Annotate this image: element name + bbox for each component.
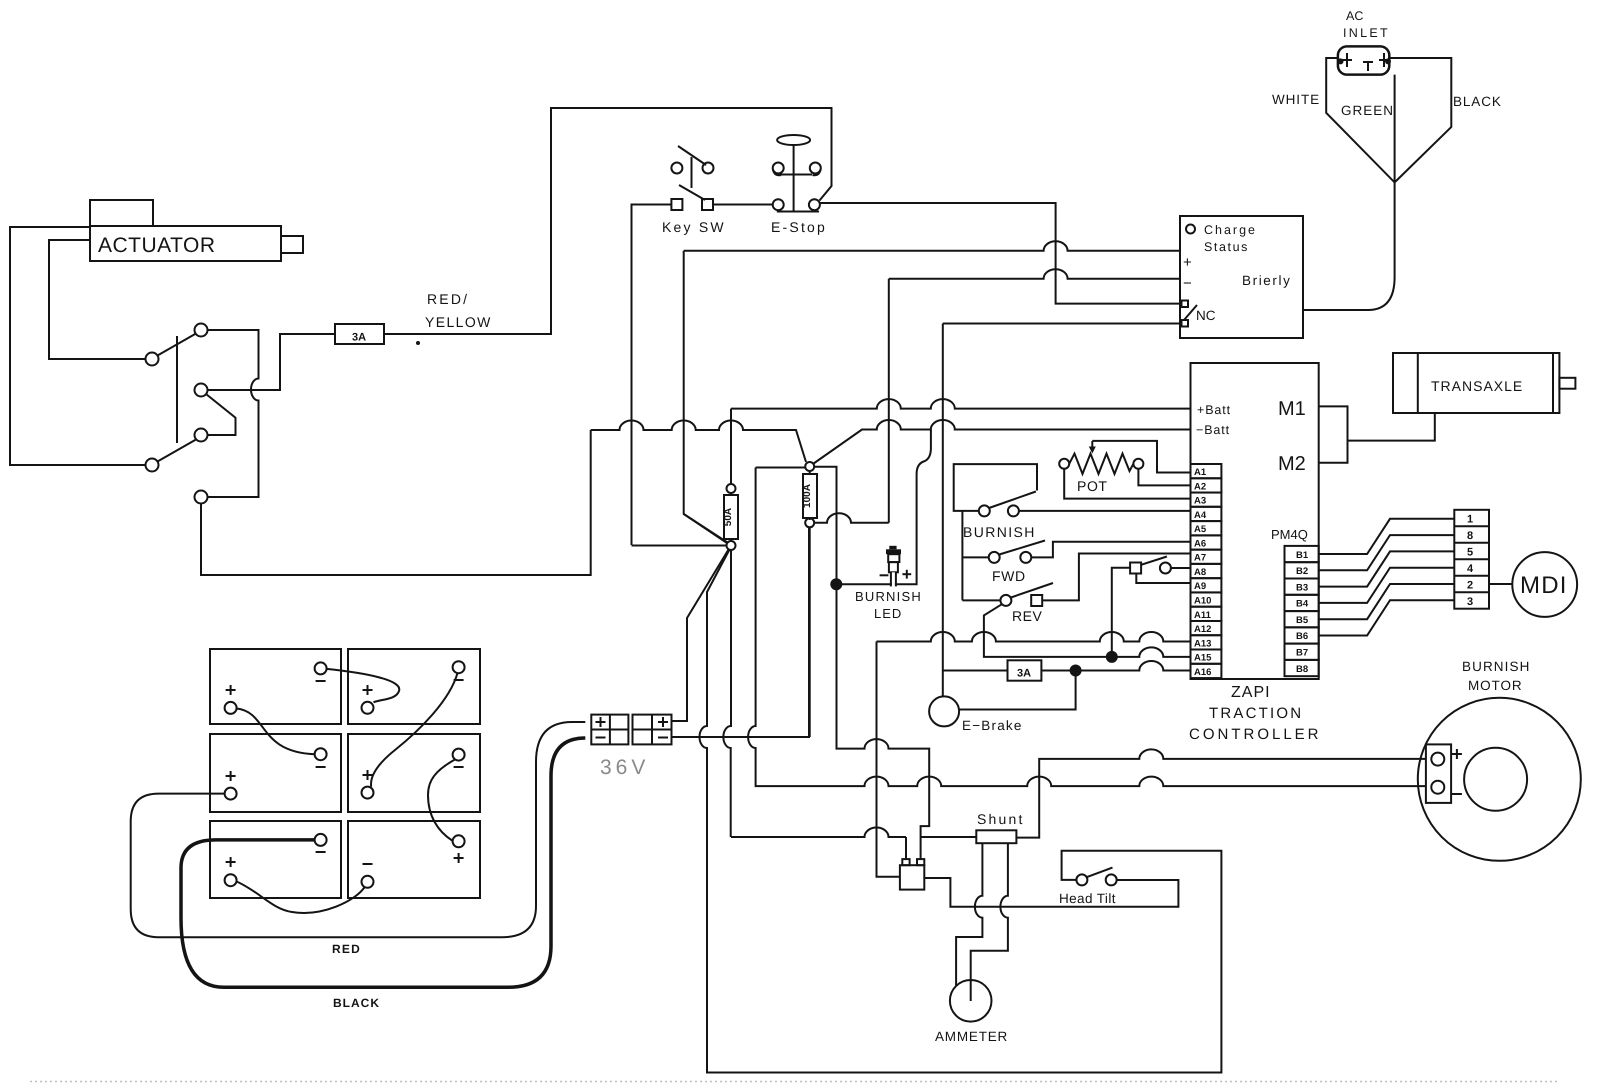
wire +Batt riser xyxy=(730,409,732,484)
wire charger nc-lower xyxy=(943,323,1181,325)
wire rev right to A7 xyxy=(1042,554,1190,601)
svg-text:B5: B5 xyxy=(1296,615,1309,626)
svg-text:B4: B4 xyxy=(1296,599,1309,610)
wire 50A upleft diag xyxy=(684,514,728,543)
label Charge Status xyxy=(1204,223,1257,254)
wire pot left to A3 xyxy=(1064,469,1190,499)
wire red/yellow xyxy=(384,108,832,334)
svg-text:B8: B8 xyxy=(1296,664,1308,675)
label PM4Q xyxy=(1271,527,1308,542)
label +Batt xyxy=(1197,403,1231,417)
wire corner to 100A top xyxy=(756,467,806,469)
wire 100A bottom right xyxy=(814,513,889,523)
controller A-pin column A1-A16 xyxy=(1191,464,1222,678)
wire coil right to head tilt xyxy=(924,878,1178,907)
wire 50A to 36V plus xyxy=(672,550,729,722)
wire rev to A15 xyxy=(984,604,1191,657)
label FWD xyxy=(992,568,1026,584)
svg-text:GREEN: GREEN xyxy=(1341,103,1394,118)
battery terminals xyxy=(225,661,465,888)
wire 50A straight down xyxy=(723,550,731,837)
svg-text:BLACK: BLACK xyxy=(333,996,380,1010)
svg-text:INLET: INLET xyxy=(1343,26,1390,40)
burnish switch xyxy=(979,492,1036,517)
junction led-dot xyxy=(830,578,842,590)
ammeter M3 xyxy=(950,980,992,1022)
cable BLACK xyxy=(181,738,585,987)
wire pot wiper to A1 xyxy=(1092,441,1190,473)
svg-text:−Batt: −Batt xyxy=(1196,423,1230,437)
svg-text:E-Stop: E-Stop xyxy=(771,219,827,235)
wire -Batt feed xyxy=(814,420,1191,464)
wire charger minus riser xyxy=(888,279,890,523)
wire charger plus riser xyxy=(684,251,727,543)
svg-text:BURNISH: BURNISH xyxy=(1462,659,1530,674)
svg-text:Charge: Charge xyxy=(1204,223,1257,237)
svg-text:Key SW: Key SW xyxy=(662,219,726,235)
label Key SW xyxy=(662,219,726,235)
controller B-pin column B1-B8 xyxy=(1285,546,1319,676)
svg-text:3A: 3A xyxy=(352,332,366,344)
label 36V xyxy=(600,756,649,779)
svg-text:A9: A9 xyxy=(1194,581,1206,592)
label TRACTION xyxy=(1209,705,1303,722)
svg-text:AC: AC xyxy=(1346,9,1363,23)
jumper bat5-bat6 xyxy=(237,882,365,913)
svg-text:CONTROLLER: CONTROLLER xyxy=(1189,726,1322,743)
e-brake solenoid xyxy=(929,696,959,726)
potentiometer POT xyxy=(1059,441,1143,494)
e-stop contacts top xyxy=(773,163,821,174)
svg-text:+Batt: +Batt xyxy=(1197,403,1231,417)
wire 36V minus to 100A xyxy=(672,527,810,737)
junction A15-dot xyxy=(1106,651,1118,663)
label CONTROLLER xyxy=(1189,726,1322,743)
wire nc riser to e-brake xyxy=(942,324,944,697)
svg-text:100A: 100A xyxy=(802,484,813,508)
label Shunt xyxy=(977,811,1025,827)
switch S1 contact C5 xyxy=(146,459,159,472)
svg-text:M1: M1 xyxy=(1278,398,1306,420)
svg-text:Brierly: Brierly xyxy=(1242,273,1291,288)
svg-text:TRANSAXLE: TRANSAXLE xyxy=(1431,378,1523,394)
svg-text:Shunt: Shunt xyxy=(977,811,1025,827)
svg-text:Status: Status xyxy=(1204,240,1249,254)
label AC INLET xyxy=(1343,9,1390,40)
switch S1 contact C6 xyxy=(195,491,208,504)
head tilt switch xyxy=(1076,868,1116,886)
svg-text:RED: RED xyxy=(332,942,361,956)
svg-text:A5: A5 xyxy=(1194,524,1207,535)
svg-text:A10: A10 xyxy=(1194,596,1211,607)
svg-text:36V: 36V xyxy=(600,756,649,779)
wire C6 down xyxy=(201,430,591,575)
label charger plus xyxy=(1183,254,1192,271)
svg-text:B6: B6 xyxy=(1296,631,1308,642)
wire burnish led xyxy=(838,430,931,585)
label -Batt xyxy=(1196,423,1230,437)
cable RED xyxy=(131,722,586,937)
charger NC contact xyxy=(1182,301,1216,327)
wire motor to transaxle xyxy=(1348,413,1435,441)
wire aux square to A9 xyxy=(1136,574,1190,584)
svg-text:−: − xyxy=(1183,275,1192,292)
e-stop nc bar xyxy=(773,170,821,176)
switch S1 blade upper xyxy=(158,334,197,356)
wire shunt bottom right xyxy=(971,843,1008,1001)
jumper bat1-bat2 xyxy=(327,669,400,702)
svg-text:NC: NC xyxy=(1196,308,1216,323)
svg-text:MDI: MDI xyxy=(1520,572,1568,599)
svg-text:AMMETER: AMMETER xyxy=(935,1029,1008,1044)
wire key-left xyxy=(632,205,672,546)
label BLACK xyxy=(333,996,380,1010)
e-stop stem xyxy=(793,145,795,212)
switch S1 blade lower xyxy=(158,440,197,462)
actuator ACT1 xyxy=(90,200,303,261)
aux switch A8 xyxy=(1130,557,1171,574)
svg-text:B3: B3 xyxy=(1296,582,1308,593)
svg-text:A6: A6 xyxy=(1194,538,1206,549)
wire aux left riser xyxy=(1112,568,1130,657)
connector 36V xyxy=(591,715,671,745)
wire actuator-left xyxy=(10,227,146,465)
charger status lamp xyxy=(1186,225,1195,234)
label BURNISH LED xyxy=(855,589,922,621)
svg-text:BURNISH: BURNISH xyxy=(855,589,922,604)
svg-text:50A: 50A xyxy=(723,508,734,526)
jumper bat1-bat3 xyxy=(237,709,315,755)
wire C3 to fuse xyxy=(208,334,335,390)
svg-text:REV: REV xyxy=(1012,608,1042,624)
wire main bus xyxy=(591,421,806,463)
svg-text:B2: B2 xyxy=(1296,566,1308,577)
e-stop contacts bottom xyxy=(773,199,820,210)
wire e-brake right xyxy=(959,671,1076,710)
svg-text:A2: A2 xyxy=(1194,481,1206,492)
svg-text:RED/: RED/ xyxy=(427,291,469,307)
switch S1 contact C1 xyxy=(195,324,208,337)
switch S1 contact C4 xyxy=(195,429,208,442)
svg-text:TRACTION: TRACTION xyxy=(1209,705,1303,722)
controller ZAPI box xyxy=(1191,363,1319,679)
label RED xyxy=(332,942,361,956)
fuse F1 3A xyxy=(335,324,384,344)
switch S1 link xyxy=(176,336,178,443)
svg-text:A16: A16 xyxy=(1194,667,1211,678)
wire 100A top right xyxy=(814,467,929,837)
svg-text:Head Tilt: Head Tilt xyxy=(1059,891,1116,906)
wire shunt bottom left xyxy=(956,843,982,986)
svg-text:BLACK: BLACK xyxy=(1453,94,1502,109)
shunt R1 xyxy=(976,830,1016,843)
switch S1 contact C2 xyxy=(146,353,159,366)
svg-text:3: 3 xyxy=(1467,596,1473,608)
svg-text:A4: A4 xyxy=(1194,510,1207,521)
svg-text:A3: A3 xyxy=(1194,496,1206,507)
svg-text:A13: A13 xyxy=(1194,638,1211,649)
wire charger minus xyxy=(889,269,1181,279)
fuse F2 50A xyxy=(723,484,738,550)
rev switch xyxy=(1000,583,1053,606)
label BURNISH xyxy=(963,524,1036,540)
wire estop-nc out xyxy=(820,203,1181,304)
label RED/YELLOW xyxy=(416,291,492,345)
fwd switch xyxy=(989,541,1045,563)
wire shunt left feed xyxy=(731,828,906,838)
svg-text:2: 2 xyxy=(1467,579,1473,591)
svg-text:+: + xyxy=(1183,254,1192,271)
wires B1-B6 staircase xyxy=(1319,519,1455,636)
wire +Batt feed xyxy=(731,399,1191,408)
wire shunt right riser xyxy=(1016,749,1426,837)
svg-text:YELLOW: YELLOW xyxy=(425,314,492,330)
svg-text:BURNISH: BURNISH xyxy=(963,524,1036,540)
charger U1 Brierly box xyxy=(1180,216,1303,338)
svg-text:A11: A11 xyxy=(1194,610,1212,621)
wire burnish right to A4 xyxy=(1019,510,1191,512)
junction A16-dot xyxy=(1070,665,1082,677)
loop 50A to big bottom box xyxy=(700,550,1222,1073)
led D1 xyxy=(880,546,912,587)
key switch blade xyxy=(678,146,706,200)
burnish motor M2 xyxy=(1418,698,1581,861)
battery bank boxes xyxy=(210,649,480,898)
wire 100A straight down xyxy=(809,527,811,737)
svg-text:A7: A7 xyxy=(1194,553,1206,564)
connector J1 cells xyxy=(1454,510,1489,609)
wire 50A left xyxy=(632,545,727,547)
wire nc to 3A xyxy=(943,670,1008,672)
wire fwd right to A6 xyxy=(1031,542,1190,558)
wire charger plus xyxy=(684,241,1181,251)
wire pot right to A2 xyxy=(1138,469,1190,486)
page dotted border xyxy=(30,1081,1560,1083)
wire aux to A8 xyxy=(1171,567,1191,569)
svg-text:LED: LED xyxy=(874,606,902,621)
switch S1 jog C3-C4 xyxy=(206,394,236,435)
coil K1 xyxy=(900,837,924,890)
svg-text:MOTOR: MOTOR xyxy=(1468,678,1523,693)
svg-text:A12: A12 xyxy=(1194,624,1211,635)
svg-text:3A: 3A xyxy=(1017,668,1031,680)
wire coil to shunt xyxy=(921,836,977,838)
wire green charger xyxy=(1303,75,1395,310)
svg-text:PM4Q: PM4Q xyxy=(1271,527,1308,542)
label M1 xyxy=(1278,398,1306,420)
jumper bat2-bat4 xyxy=(371,673,457,787)
wire C1-C6 right xyxy=(208,330,259,497)
label M2 xyxy=(1278,453,1306,475)
svg-text:WHITE: WHITE xyxy=(1272,92,1320,107)
svg-text:8: 8 xyxy=(1467,530,1473,542)
wire to MDI xyxy=(1489,583,1512,585)
label E-Brake xyxy=(962,718,1023,733)
wire corner down to motor line xyxy=(748,468,1426,787)
ac inlet receptacle xyxy=(1338,46,1392,74)
svg-text:5: 5 xyxy=(1467,546,1473,558)
svg-text:POT: POT xyxy=(1077,478,1108,494)
wire rev left xyxy=(962,599,1000,601)
label AMMETER xyxy=(935,1029,1008,1044)
svg-text:1: 1 xyxy=(1467,513,1473,525)
svg-text:4: 4 xyxy=(1467,563,1474,575)
wire switch common riser xyxy=(961,511,963,601)
svg-text:B1: B1 xyxy=(1296,550,1309,561)
wire key-to-estop xyxy=(713,204,773,206)
label GREEN xyxy=(1341,103,1394,118)
svg-text:A15: A15 xyxy=(1194,653,1212,664)
fuse F3 100A xyxy=(802,462,817,527)
svg-text:ZAPI: ZAPI xyxy=(1231,684,1271,701)
label REV xyxy=(1012,608,1042,624)
wire actuator-second xyxy=(49,240,146,359)
label E-Stop xyxy=(771,219,827,235)
label charger minus xyxy=(1183,275,1192,292)
label BURNISH MOTOR xyxy=(1462,659,1530,693)
wire 3A to A16 xyxy=(1041,661,1190,671)
svg-text:A8: A8 xyxy=(1194,567,1206,578)
switch S1 contact C3 xyxy=(195,384,208,397)
wire A13 riser to coil xyxy=(877,642,900,877)
wire M1-M2 bracket xyxy=(1319,406,1348,462)
fuse F4 3A xyxy=(1008,660,1042,680)
e-stop bottom bar xyxy=(777,211,819,213)
label BLACK ac xyxy=(1453,94,1502,109)
svg-text:M2: M2 xyxy=(1278,453,1306,475)
wire fwd left xyxy=(962,556,988,558)
label Head Tilt xyxy=(1059,891,1116,906)
svg-text:E−Brake: E−Brake xyxy=(962,718,1023,733)
svg-text:FWD: FWD xyxy=(992,568,1026,584)
label WHITE xyxy=(1272,92,1320,107)
e-stop button cap xyxy=(777,135,810,145)
key switch KEY contacts xyxy=(671,163,713,211)
svg-text:A1: A1 xyxy=(1194,467,1207,478)
svg-text:ACTUATOR: ACTUATOR xyxy=(98,234,216,257)
ac inlet funnel xyxy=(1326,58,1451,182)
mdi MDI xyxy=(1512,552,1577,617)
label ZAPI xyxy=(1231,684,1271,701)
jumper bat4-bat6top xyxy=(428,760,455,842)
wire burnish common loop xyxy=(954,464,1037,511)
wire A13 xyxy=(877,632,1191,642)
svg-text:B7: B7 xyxy=(1296,648,1308,659)
transaxle box xyxy=(1393,353,1575,413)
label Brierly xyxy=(1242,273,1291,288)
